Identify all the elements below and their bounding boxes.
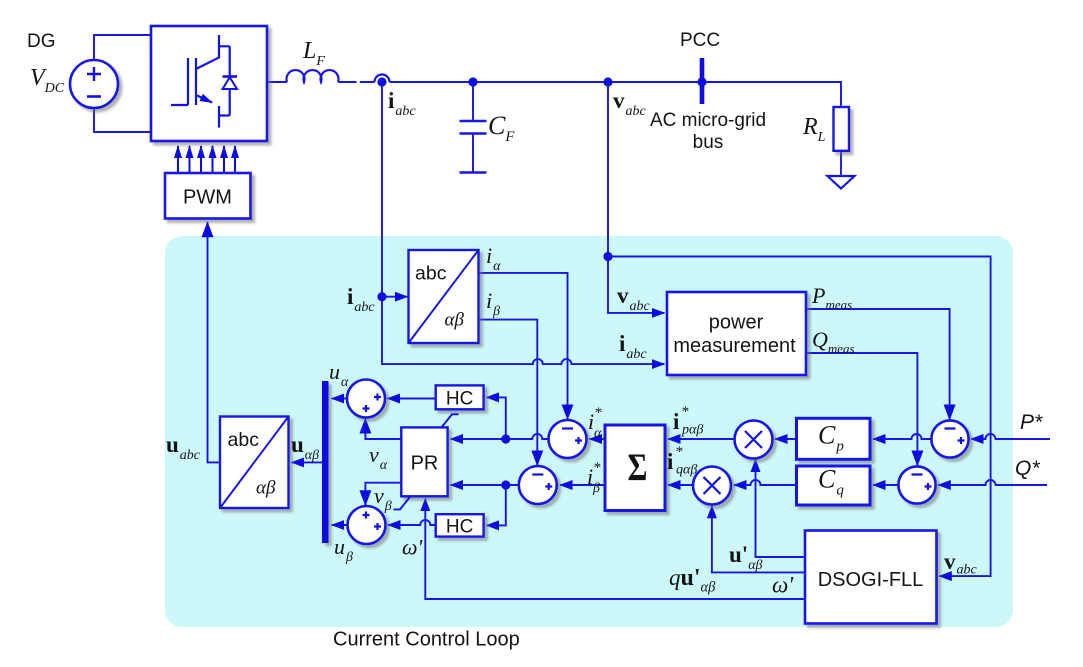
svg-text:abc: abc bbox=[228, 429, 260, 451]
error alpha summing circle bbox=[549, 420, 587, 458]
PWM gate arrows to inverter bbox=[178, 146, 235, 173]
wire P* reference input with jump bbox=[971, 434, 1050, 439]
signs on P* summer bbox=[945, 429, 965, 445]
gate pulse arrow 5 bbox=[223, 146, 225, 173]
Cp gain block bbox=[797, 418, 871, 459]
P* summing circle bbox=[931, 420, 968, 457]
u_beta summing circle bbox=[348, 506, 386, 544]
wire multiplier q to sigma bbox=[668, 484, 693, 486]
svg-text:*: * bbox=[593, 460, 601, 476]
svg-text:vabc: vabc bbox=[613, 88, 647, 119]
signs on error alpha summer (minus top, plus right) bbox=[562, 429, 582, 445]
wire P_meas to P* junction bbox=[806, 309, 950, 420]
HC top block bbox=[436, 385, 484, 409]
wire u_abc transform up to PWM bbox=[208, 222, 221, 462]
svg-text:power: power bbox=[709, 312, 764, 334]
wire P* junction to Cp (jump over Qmeas line) bbox=[873, 434, 932, 439]
wire DSOGI omega to PR bbox=[425, 499, 805, 599]
wire bus bar to u_abc transform bbox=[292, 461, 322, 463]
node v_abc branch dot bbox=[603, 252, 612, 261]
svg-text:PWM: PWM bbox=[183, 187, 232, 209]
node PCC junction dot bbox=[697, 77, 706, 86]
svg-text:CF: CF bbox=[488, 111, 515, 145]
node i_abc branch dot bbox=[377, 292, 386, 301]
wire Q* reference input with jump bbox=[938, 480, 1047, 485]
alphabeta bus bar bbox=[322, 381, 329, 543]
svg-text:PCC: PCC bbox=[680, 30, 720, 51]
voltage source VDC circle bbox=[70, 60, 118, 108]
wire Q* junction to Cq bbox=[873, 484, 899, 486]
VDC plus sign bbox=[87, 67, 101, 81]
wire v_abc feedforward to DSOGI-FLL bbox=[608, 257, 991, 577]
wire HC top to u_alpha summer bbox=[388, 398, 436, 400]
wire v_alpha PR to u_alpha summer bbox=[365, 419, 401, 439]
svg-text:*: * bbox=[594, 405, 602, 421]
signs on u_alpha summer bbox=[363, 394, 382, 413]
svg-text:DG: DG bbox=[27, 31, 56, 52]
inductor LF coil bbox=[287, 70, 339, 82]
svg-text:ω': ω' bbox=[772, 573, 794, 598]
svg-text:Current Control Loop: Current Control Loop bbox=[333, 629, 520, 651]
svg-text:αβ: αβ bbox=[256, 478, 276, 499]
PR adaptive tick bottom bbox=[394, 496, 411, 509]
wire lower error out to PR bbox=[451, 484, 520, 486]
signs on u_beta summer bbox=[363, 512, 382, 531]
PR adaptive tick top bbox=[442, 414, 459, 427]
svg-text:αβ: αβ bbox=[445, 310, 465, 331]
Cq gain block bbox=[797, 466, 871, 505]
svg-text:*: * bbox=[675, 444, 683, 460]
svg-text:iabc: iabc bbox=[388, 88, 416, 119]
svg-text:measurement: measurement bbox=[673, 335, 796, 357]
current probe arc at i_abc node bbox=[375, 75, 390, 82]
gate pulse arrow 2 bbox=[189, 146, 191, 173]
wire u_alpha summer to bus bar bbox=[332, 398, 348, 400]
wire Cp to multiplier bbox=[775, 438, 797, 440]
PCC tick mark bbox=[700, 58, 705, 104]
power measurement block bbox=[667, 292, 806, 375]
node v_abc junction dot bbox=[603, 77, 612, 86]
gate pulse arrow 3 bbox=[200, 146, 202, 173]
wire sigma out beta to lower error junction bbox=[560, 484, 605, 486]
resistor RL body bbox=[834, 107, 850, 151]
wire u_beta summer to bus bar bbox=[332, 524, 348, 526]
wire: inductor to probe (with measurement gap) bbox=[338, 81, 375, 83]
error beta summing circle bbox=[519, 466, 557, 504]
svg-text:Q*: Q* bbox=[1015, 457, 1040, 480]
wire HC bottom to u_beta summer (jump over omega line) bbox=[388, 520, 436, 525]
wire: main AC bus to RL corner bbox=[390, 82, 842, 107]
multiplier q circle bbox=[693, 467, 731, 505]
multiplier p circle bbox=[735, 421, 773, 459]
IGBT gate lead bbox=[171, 104, 188, 106]
node i_abc junction dot bbox=[377, 77, 386, 86]
diagonal of current transform block bbox=[409, 250, 479, 343]
gate pulse arrow 6 bbox=[234, 146, 236, 173]
svg-text:DSOGI-FLL: DSOGI-FLL bbox=[818, 569, 924, 591]
multiplier p cross bbox=[745, 431, 762, 448]
svg-text:i: i bbox=[673, 409, 680, 434]
svg-text:Σ: Σ bbox=[628, 445, 648, 488]
IGBT emitter lead bbox=[218, 106, 220, 128]
svg-text:PR: PR bbox=[411, 453, 439, 475]
svg-text:RL: RL bbox=[802, 114, 826, 145]
wire Q_meas to Q* junction (straight vertical, jump is on other line) bbox=[806, 353, 917, 466]
wire error beta to HC bottom bbox=[487, 485, 506, 525]
svg-text:abc: abc bbox=[415, 263, 447, 285]
svg-text:α: α bbox=[594, 426, 602, 441]
svg-text:LF: LF bbox=[302, 38, 325, 69]
PR controller block bbox=[401, 427, 447, 496]
wire upper error out to PR (jump over i_beta drop) bbox=[451, 434, 549, 439]
DSOGI-FLL block bbox=[805, 531, 937, 624]
wire v_abc down to power measurement bbox=[608, 84, 664, 313]
svg-text:bus: bus bbox=[693, 132, 724, 153]
PWM block bbox=[165, 173, 251, 219]
svg-text:*: * bbox=[681, 404, 689, 420]
svg-text:P*: P* bbox=[1020, 411, 1043, 434]
HC bottom block bbox=[436, 514, 484, 536]
sigma summation block bbox=[605, 425, 665, 511]
svg-text:ω': ω' bbox=[402, 535, 423, 560]
gate pulse arrow 1 bbox=[177, 146, 179, 173]
capacitor CF branch wire bbox=[472, 82, 474, 173]
node CF junction dot bbox=[468, 77, 477, 86]
svg-text:β: β bbox=[592, 481, 600, 496]
wire: RL to ground bbox=[840, 151, 842, 176]
capacitor CF plates bbox=[460, 121, 487, 173]
wire: DC source loop bottom bbox=[94, 108, 151, 132]
multiplier q cross bbox=[704, 477, 721, 494]
wire DSOGI u'ab up to multiplier p bbox=[756, 460, 806, 558]
svg-text:HC: HC bbox=[446, 389, 473, 410]
inverter block bbox=[151, 26, 267, 141]
IGBT emitter arrow bbox=[196, 95, 212, 103]
VDC minus sign bbox=[87, 95, 101, 98]
svg-text:i: i bbox=[667, 449, 674, 474]
signs on Q* summer bbox=[912, 475, 932, 491]
Q* summing circle bbox=[898, 466, 935, 503]
u_abc output transform block bbox=[220, 417, 289, 509]
wire i_alpha from transform to upper error junction bbox=[479, 273, 568, 419]
wire multiplier p to sigma bbox=[668, 438, 735, 440]
svg-text:pαβ: pαβ bbox=[681, 423, 703, 438]
u_alpha summing circle bbox=[347, 380, 385, 418]
svg-text:qαβ: qαβ bbox=[676, 463, 697, 478]
node error beta branch dot bbox=[501, 480, 510, 489]
current control loop background box bbox=[165, 236, 1013, 627]
wire error alpha to HC top bbox=[487, 397, 506, 439]
wire: inverter output to inductor bbox=[267, 81, 287, 83]
diode triangle bbox=[223, 77, 238, 89]
antiparallel diode of IGBT bbox=[219, 46, 230, 115]
wire i_abc down into loop and to power measurement (with jumps) bbox=[382, 84, 664, 364]
diode cathode bar bbox=[223, 75, 238, 78]
svg-text:AC micro-grid: AC micro-grid bbox=[650, 110, 766, 131]
wire sigma out alpha to upper error junction bbox=[590, 438, 606, 440]
IGBT symbol inside inverter bbox=[171, 35, 237, 128]
wire i_abc arrow into abc-to-alphabeta block bbox=[382, 296, 407, 298]
svg-text:VDC: VDC bbox=[30, 65, 65, 96]
diagonal of u transform block bbox=[220, 417, 289, 509]
IGBT gate bar bbox=[187, 58, 189, 105]
wire DSOGI qu'ab up to multiplier q bbox=[712, 506, 805, 573]
wire Cq to multiplier (jump over u' line) bbox=[734, 480, 797, 485]
ground symbol bbox=[828, 176, 855, 189]
signs on error beta summer bbox=[532, 475, 552, 491]
wire i_beta from transform to lower error junction bbox=[479, 320, 538, 466]
wire: DC source loop top bbox=[94, 35, 151, 60]
svg-text:HC: HC bbox=[446, 517, 473, 538]
wire v_beta PR to u_beta summer bbox=[365, 483, 401, 506]
IGBT collector lead bbox=[196, 35, 219, 69]
abc to alphabeta current transform block bbox=[409, 250, 479, 343]
IGBT body bar bbox=[195, 58, 197, 105]
node error alpha branch dot bbox=[501, 434, 510, 443]
gate pulse arrow 4 bbox=[212, 146, 214, 173]
